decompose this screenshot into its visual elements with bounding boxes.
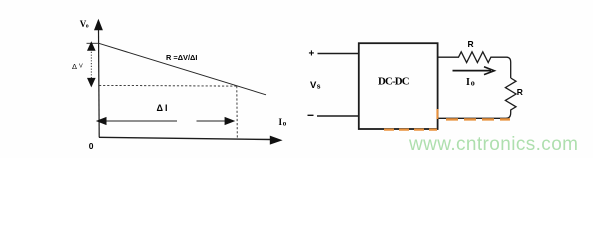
svg-text:R =ΔV/ΔI: R =ΔV/ΔI <box>166 53 197 62</box>
svg-text:+: + <box>309 49 315 60</box>
svg-text:I: I <box>466 77 470 88</box>
svg-text:o: o <box>471 78 475 87</box>
svg-text:R: R <box>517 87 523 97</box>
svg-text:o: o <box>283 120 287 128</box>
svg-text:0: 0 <box>89 141 94 151</box>
svg-text:DC-DC: DC-DC <box>378 75 409 87</box>
svg-text:V: V <box>79 64 83 70</box>
svg-text:R: R <box>468 39 474 49</box>
svg-text:Δ: Δ <box>72 62 77 71</box>
svg-text:www.cntronics.com: www.cntronics.com <box>408 134 578 155</box>
svg-text:ΔI: ΔI <box>157 103 170 113</box>
svg-text:s: s <box>317 84 321 91</box>
svg-text:o: o <box>86 24 89 30</box>
